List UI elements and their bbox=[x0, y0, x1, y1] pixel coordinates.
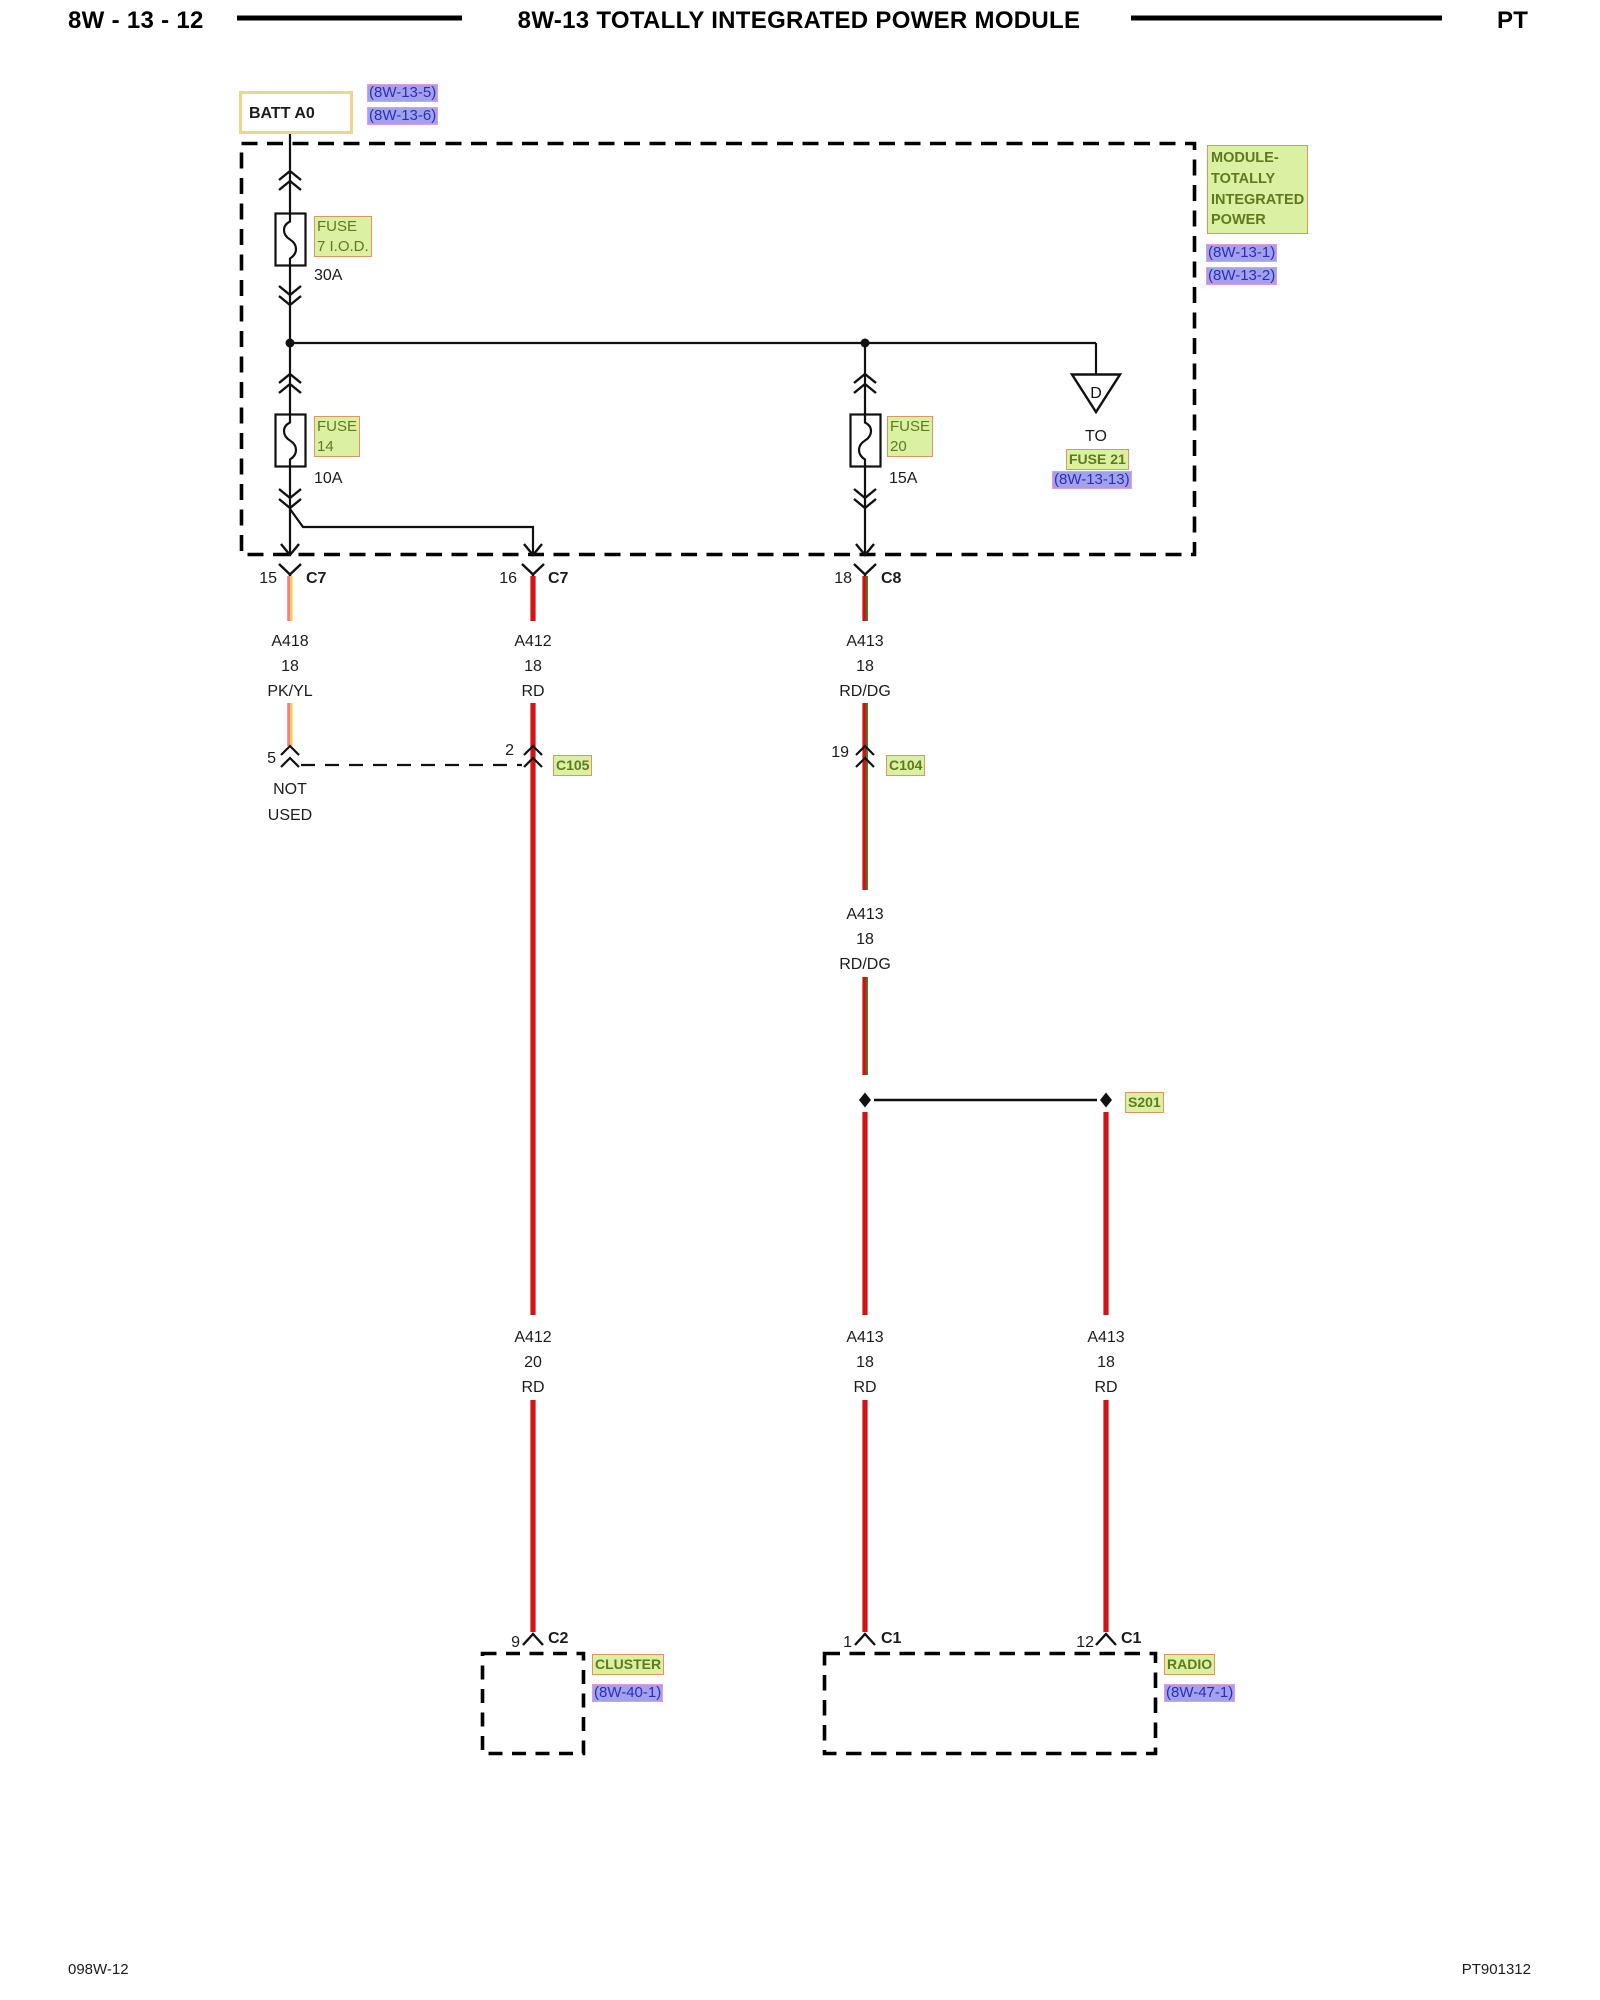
svg-text:D: D bbox=[1090, 385, 1102, 402]
